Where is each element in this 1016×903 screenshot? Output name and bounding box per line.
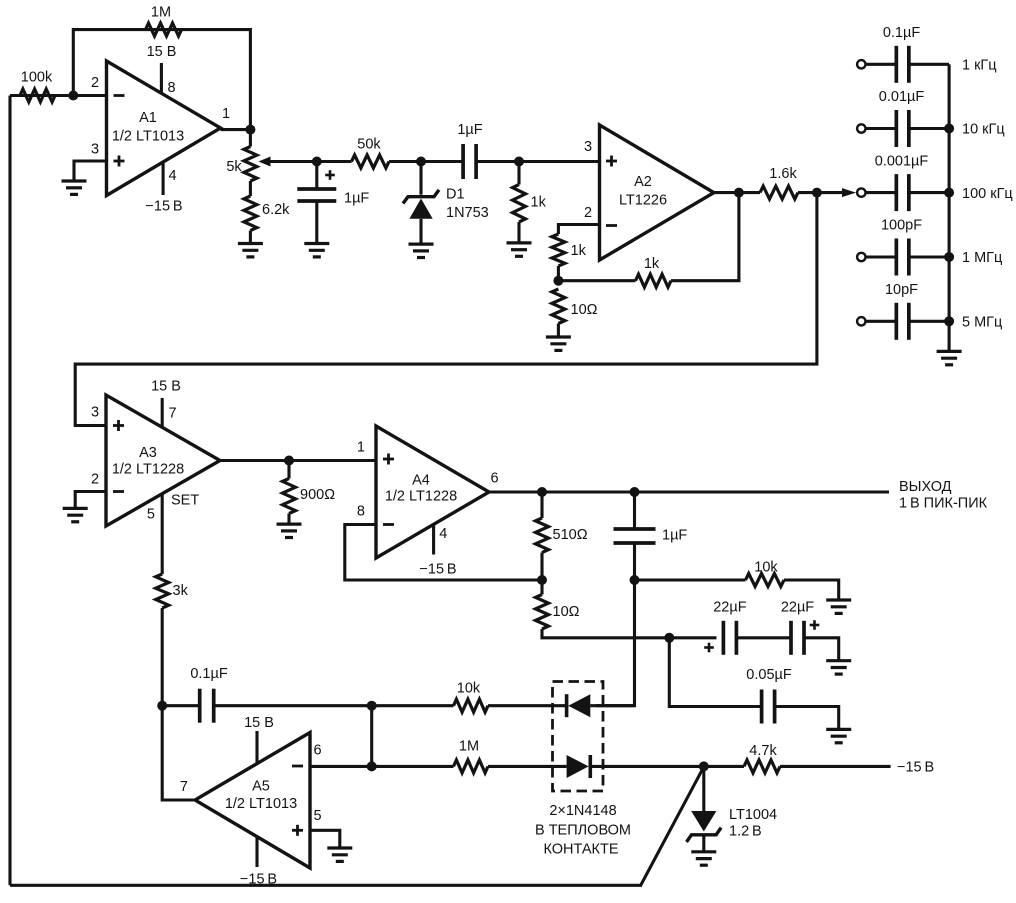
svg-text:15 В: 15 В <box>151 379 181 395</box>
label 510 ohm <box>553 527 588 543</box>
wire diagonal feedback to LT1004 node <box>640 767 704 887</box>
wire 10k row <box>635 578 746 581</box>
svg-text:SET: SET <box>171 493 199 509</box>
dashed thermal-contact box <box>553 682 604 792</box>
svg-text:1: 1 <box>222 106 230 122</box>
label 1/2 LT1013 (A1) <box>112 129 184 145</box>
label + (1uF pol) <box>325 170 335 180</box>
wire 1k feedback to output <box>671 193 739 281</box>
resistor 1k feedback (A2) <box>636 274 672 287</box>
svg-text:3: 3 <box>91 405 99 421</box>
svg-text:1M: 1M <box>459 739 479 755</box>
wire 0.1uF to 10k <box>213 704 453 707</box>
node bus junction row 3 <box>944 188 954 198</box>
resistor 1k shunt at A2 input <box>513 162 526 243</box>
svg-text:A3: A3 <box>139 445 157 461</box>
label 1uF (series) <box>457 122 482 138</box>
resistor 3k <box>156 574 169 608</box>
capacitor 1uF polarized plates <box>297 189 336 201</box>
A1 pin 4 stub <box>162 162 165 195</box>
svg-text:3k: 3k <box>173 583 189 599</box>
A4 pin 8 feedback wire <box>345 525 542 581</box>
label -15 V (A4) <box>419 562 456 578</box>
node 510/10 ohm junction <box>537 575 547 585</box>
label -15 V (rail) <box>897 760 934 776</box>
label 2x1N4148 <box>549 803 616 819</box>
svg-text:4: 4 <box>439 526 447 542</box>
svg-text:5: 5 <box>314 808 322 824</box>
node A2 output <box>734 188 744 198</box>
label 1k (feedback) <box>644 256 660 272</box>
wire 22uF node to 0.05uF <box>669 638 761 707</box>
label KONTAKTE <box>543 842 618 858</box>
resistor 1M (thermal) <box>454 760 489 773</box>
svg-text:10k: 10k <box>754 560 778 576</box>
A1 output wire pin 1 <box>221 128 251 131</box>
selector terminal circle row 1 <box>857 60 865 68</box>
resistor 1M feedback <box>146 23 182 36</box>
resistor 1k at A2 pin2 <box>552 234 565 266</box>
selector arrow into 100kHz tap <box>842 188 856 197</box>
wire A1 output down to 5k <box>249 130 252 147</box>
resistor 10 ohm (A2) <box>552 289 565 324</box>
svg-text:1.6k: 1.6k <box>769 166 797 182</box>
diode D3 1N4148 (points right) <box>567 755 591 778</box>
wire capacitor to bus row 3 <box>909 191 950 194</box>
wire 0.1uF left lead <box>162 704 200 707</box>
wire 10 ohm to ground <box>557 324 560 338</box>
svg-text:22µF: 22µF <box>781 600 814 616</box>
svg-text:−15 В: −15 В <box>240 872 277 888</box>
svg-text:50k: 50k <box>357 137 381 153</box>
ground below 0.05uF <box>826 729 851 742</box>
svg-text:4: 4 <box>169 168 177 184</box>
wire 6.2k to ground <box>249 231 252 244</box>
capacitor 0.05uF <box>762 690 775 724</box>
wire A2 output to 1.6k <box>714 191 760 194</box>
A2 minus marker pin2 <box>606 224 617 227</box>
label 0.1µF <box>883 25 921 41</box>
label D1 <box>446 187 465 203</box>
wire 1M to diode D3 <box>488 765 567 768</box>
svg-text:510Ω: 510Ω <box>553 527 588 543</box>
ground below 10 ohm <box>546 337 571 350</box>
node A4 output / 1uF <box>630 487 640 497</box>
A1 pin 8 stub <box>160 63 163 94</box>
wire 1k node to A2 pin 3 <box>519 160 600 163</box>
wire D1 to series 1uF <box>421 160 463 163</box>
svg-text:1/2 LT1013: 1/2 LT1013 <box>112 129 184 145</box>
svg-text:A1: A1 <box>139 110 157 126</box>
label 15 V (A3) <box>151 379 181 395</box>
zener diode D1 1N753 <box>403 162 439 245</box>
A5 pin 7 wire <box>162 706 195 800</box>
node A1 output <box>245 125 255 135</box>
wire feedback row A2 <box>558 279 635 282</box>
svg-text:6: 6 <box>491 471 499 487</box>
label 10k (to ground) <box>754 560 778 576</box>
svg-text:10Ω: 10Ω <box>553 604 580 620</box>
svg-text:A4: A4 <box>412 473 430 489</box>
wire input row to A1 pin 2 <box>10 94 107 97</box>
resistor 6.2k <box>244 196 257 231</box>
svg-text:1 кГц: 1 кГц <box>962 58 997 74</box>
label + (22uF right) <box>810 620 820 630</box>
A1 pin 3 ground wire <box>74 161 107 181</box>
A5 minus marker pin6 <box>292 765 303 768</box>
op-amp A3 1/2 LT1228 <box>106 395 220 526</box>
label LT1004 <box>729 807 777 823</box>
label 10 ohm (A4) <box>553 604 580 620</box>
svg-text:2: 2 <box>91 472 99 488</box>
pin label 3 (A2) <box>584 139 592 155</box>
zener diode LT1004 <box>687 766 722 851</box>
svg-text:6: 6 <box>314 743 322 759</box>
wire 1uF to 10k node <box>633 543 636 580</box>
svg-text:4.7k: 4.7k <box>749 743 777 759</box>
node A1 inverting input junction <box>68 91 78 101</box>
capacitor 1uF shunt stem <box>633 492 636 529</box>
pin label 3 (A3) <box>91 405 99 421</box>
label 6.2k <box>262 202 290 218</box>
svg-text:ВЫХОД: ВЫХОД <box>899 479 952 495</box>
pin label 6 (A5) <box>314 743 322 759</box>
capacitor 0.1µF <box>896 46 909 83</box>
pin label 2 (A1) <box>91 75 99 91</box>
op-amp A2 LT1226 <box>600 125 714 260</box>
svg-text:100pF: 100pF <box>881 218 922 234</box>
label 10 ohm (A2) <box>571 302 598 318</box>
A4 minus marker pin8 <box>383 523 394 526</box>
label A3 <box>139 445 157 461</box>
resistor 510 ohm <box>536 492 549 580</box>
ground at A1 pin 3 <box>62 181 87 194</box>
resistor 50k <box>352 155 390 168</box>
A4 output wire to VYHOD <box>489 490 889 493</box>
svg-text:A5: A5 <box>252 779 270 795</box>
svg-text:1µF: 1µF <box>457 122 482 138</box>
wire 4.7k to -15V label <box>780 765 891 768</box>
capacitor 0.001µF <box>896 174 909 211</box>
label 1M (thermal) <box>459 739 479 755</box>
label 0.05uF <box>746 667 792 683</box>
svg-text:100 кГц: 100 кГц <box>962 186 1013 202</box>
wire A5 pin6 row <box>310 765 454 768</box>
label 5k <box>226 159 242 175</box>
wire 10k to ground <box>784 580 839 600</box>
node bus junction row 2 <box>944 124 954 134</box>
node 1uF/10k junction <box>630 575 640 585</box>
pin label 5 (A5) <box>314 808 322 824</box>
ground below 22uF <box>826 661 851 674</box>
node wiper / 1uF junction <box>312 157 322 167</box>
label 1.2 V <box>729 824 762 840</box>
wire left feedback rail <box>8 96 11 886</box>
selector terminal circle row 5 <box>857 317 865 325</box>
label A2 <box>634 174 652 190</box>
wire terminal to capacitor row 5 <box>866 320 896 323</box>
ground below LT1004 <box>691 852 716 865</box>
wire capacitor to bus row 1 <box>909 63 950 66</box>
svg-text:1.2 В: 1.2 В <box>729 824 762 840</box>
label 10k (thermal) <box>457 681 481 697</box>
svg-text:КОНТАКТЕ: КОНТАКТЕ <box>543 842 618 858</box>
resistor 100k <box>20 89 55 102</box>
A1 minus marker pin2 <box>114 94 125 97</box>
svg-text:0.01µF: 0.01µF <box>879 89 925 105</box>
pin label 5 (A3) <box>147 507 155 523</box>
wire 22uF row <box>669 636 716 639</box>
capacitor 0.01µF <box>896 110 909 147</box>
wire capacitor to bus row 5 <box>909 320 950 323</box>
capacitor 1uF shunt plates <box>614 529 656 543</box>
wire capacitor to bus row 4 <box>909 255 950 258</box>
potentiometer 5k <box>244 147 257 182</box>
node 1k/10ohm junction <box>553 276 563 286</box>
svg-text:2: 2 <box>584 205 592 221</box>
svg-text:3: 3 <box>584 139 592 155</box>
svg-text:6.2k: 6.2k <box>262 202 290 218</box>
label 1 кГц <box>962 58 997 74</box>
label 1 МГц <box>962 250 1002 266</box>
resistor 900 ohm <box>283 461 296 525</box>
op-amp A5 1/2 LT1013 (points left) <box>195 733 310 869</box>
label 1uF (pol) <box>344 191 369 207</box>
wire 1.6k node down to A3 feed <box>75 193 817 426</box>
A2 pin 2 wire <box>558 225 599 235</box>
capacitor 22uF left <box>723 621 736 655</box>
label 1.6k <box>769 166 797 182</box>
node 22uF junction <box>664 633 674 643</box>
pin label 3 (A1) <box>91 142 99 158</box>
node -15V / LT1004 junction <box>699 761 709 771</box>
svg-text:В ТЕПЛОВОМ: В ТЕПЛОВОМ <box>535 823 631 839</box>
svg-text:D1: D1 <box>446 187 465 203</box>
label 1k (shunt) <box>531 195 547 211</box>
label SET <box>171 493 199 509</box>
ground below bank bus <box>937 351 962 364</box>
pin label 1 (A4) <box>357 440 365 456</box>
svg-text:1k: 1k <box>571 243 587 259</box>
A3 minus marker pin2 <box>113 490 124 493</box>
svg-text:100k: 100k <box>21 70 53 86</box>
label 1k (A2 pin2) <box>571 243 587 259</box>
svg-text:0.1µF: 0.1µF <box>883 25 921 41</box>
wire 1M feedback loop <box>73 30 250 130</box>
pin label 8 (A4) <box>357 504 365 520</box>
label 1/2 LT1228 (A3) <box>112 462 184 478</box>
svg-text:2×1N4148: 2×1N4148 <box>549 803 616 819</box>
label 3k <box>173 583 189 599</box>
node 1.6k output junction <box>812 188 822 198</box>
svg-text:2: 2 <box>91 75 99 91</box>
svg-text:10k: 10k <box>457 681 481 697</box>
wire capacitor to bus row 2 <box>909 127 950 130</box>
wire capacitor bank bus <box>948 64 951 351</box>
A5 pin 5 ground wire <box>310 830 340 848</box>
wire 0.05uF to ground <box>775 707 839 730</box>
svg-text:1 В ПИК-ПИК: 1 В ПИК-ПИК <box>899 496 988 512</box>
label 1N753 <box>446 205 489 221</box>
wire 50k to D1 node <box>389 160 421 163</box>
A5 plus marker pin5 <box>292 825 303 836</box>
capacitor 1uF series <box>463 144 476 179</box>
A4 pin 4 stub <box>432 524 435 554</box>
svg-text:1k: 1k <box>644 256 660 272</box>
node bus junction row 5 <box>944 316 954 326</box>
pin label 1 (A1) <box>222 106 230 122</box>
node bus junction row 4 <box>944 252 954 262</box>
wire 1.6k to bank arrow <box>798 191 817 194</box>
capacitor 0.1uF <box>200 689 214 723</box>
pin label 8 (A1) <box>168 80 176 96</box>
svg-text:7: 7 <box>169 406 177 422</box>
wire 22uF to ground <box>804 638 839 661</box>
svg-text:1/2 LT1228: 1/2 LT1228 <box>112 462 184 478</box>
node 1k junction <box>514 157 524 167</box>
ground below 900 ohm <box>277 524 302 537</box>
resistor 10 ohm (A4) <box>536 580 549 629</box>
ground below 10k <box>826 600 851 613</box>
svg-text:10pF: 10pF <box>885 282 918 298</box>
A3 plus marker pin3 <box>113 420 124 431</box>
A5 bottom supply stub <box>255 837 258 867</box>
wire terminal to capacitor row 3 <box>866 191 896 194</box>
label 0.001µF <box>875 153 929 169</box>
svg-text:15 В: 15 В <box>147 44 177 60</box>
A3 pin 7 stub <box>161 398 164 427</box>
A1 plus marker pin3 <box>114 156 125 167</box>
label + (22uF left) <box>704 643 714 653</box>
svg-text:1: 1 <box>357 440 365 456</box>
svg-text:1M: 1M <box>151 5 171 21</box>
op-amp A4 1/2 LT1228 <box>376 426 489 558</box>
svg-text:A2: A2 <box>634 174 652 190</box>
wire 10 ohm to 22uF row <box>542 629 669 638</box>
wire wiper row to 50k <box>317 160 352 163</box>
wire terminal to capacitor row 2 <box>866 127 896 130</box>
svg-text:1/2 LT1013: 1/2 LT1013 <box>225 796 297 812</box>
selector terminal circle row 4 <box>857 253 865 261</box>
label 1M <box>151 5 171 21</box>
capacitor 100pF <box>896 239 909 276</box>
resistor 1.6k <box>760 186 798 199</box>
svg-text:−15 В: −15 В <box>145 199 182 215</box>
ground at A3 pin 2 <box>63 508 88 521</box>
node 3k / 0.1uF junction <box>157 701 167 711</box>
ground below 1k shunt <box>507 243 532 256</box>
svg-text:10 кГц: 10 кГц <box>962 122 1005 138</box>
svg-text:8: 8 <box>357 504 365 520</box>
pin label 4 (A4) <box>439 526 447 542</box>
wire 1uF to 1k node <box>476 160 519 163</box>
svg-text:1k: 1k <box>531 195 547 211</box>
label A4 <box>412 473 430 489</box>
svg-text:22µF: 22µF <box>713 600 746 616</box>
A5 top supply stub <box>255 731 258 763</box>
label 100k <box>21 70 53 86</box>
A3 pin 5 SET stub <box>161 494 164 574</box>
svg-text:−15 В: −15 В <box>419 562 456 578</box>
label LT1226 <box>619 193 667 209</box>
node A3 output / 900 ohm <box>284 456 294 466</box>
resistor 4.7k <box>744 760 780 773</box>
wire node to 4.7k <box>704 765 744 768</box>
capacitor 22uF right <box>791 621 804 655</box>
resistor 10k (to ground) <box>746 574 785 587</box>
node 0.1uF/pin6 junction bottom <box>367 761 377 771</box>
A4 plus marker pin1 <box>383 454 394 465</box>
selector terminal circle row 2 <box>857 124 865 132</box>
wire diode D3 to -15V node <box>590 765 704 768</box>
svg-text:−15 В: −15 В <box>897 760 934 776</box>
ground below D1 <box>409 244 434 257</box>
label 0.01µF <box>879 89 925 105</box>
svg-text:5: 5 <box>147 507 155 523</box>
svg-text:7: 7 <box>180 779 188 795</box>
label -15 V (A1) <box>145 199 182 215</box>
wire 1uF pol to ground <box>315 201 318 244</box>
A2 plus marker pin3 <box>606 156 617 167</box>
svg-text:1µF: 1µF <box>344 191 369 207</box>
pin label 4 (A1) <box>169 168 177 184</box>
label 1 V PIK-PIK <box>899 496 988 512</box>
svg-text:10Ω: 10Ω <box>571 302 598 318</box>
label 15 V (A1) <box>147 44 177 60</box>
pin label 7 (A3) <box>169 406 177 422</box>
label 10 кГц <box>962 122 1005 138</box>
wire bottom feedback line <box>10 884 640 887</box>
wire 1k to 10 ohm node <box>557 266 560 281</box>
label 1uF (shunt) <box>662 528 687 544</box>
svg-text:8: 8 <box>168 80 176 96</box>
node 0.1uF/pin6 junction top <box>367 701 377 711</box>
svg-text:0.1µF: 0.1µF <box>190 666 228 682</box>
wire to selector arrow <box>817 191 845 194</box>
svg-text:5k: 5k <box>226 159 242 175</box>
wire terminal to capacitor row 4 <box>866 255 896 258</box>
label 22uF (right) <box>781 600 814 616</box>
selector terminal circle row 3 <box>857 188 865 196</box>
wire 1uF node down to diode row <box>596 580 635 706</box>
A3 pin 2 ground wire <box>75 492 106 509</box>
pin label 7 (A5) <box>180 779 188 795</box>
label A1 <box>139 110 157 126</box>
resistor 10k (thermal) <box>454 699 489 712</box>
pin label 2 (A3) <box>91 472 99 488</box>
label 100pF <box>881 218 922 234</box>
svg-text:3: 3 <box>91 142 99 158</box>
capacitor 1uF polarized stem <box>315 162 318 189</box>
label 900 ohm <box>300 487 335 503</box>
label 10pF <box>885 282 918 298</box>
svg-text:15 В: 15 В <box>244 715 274 731</box>
svg-text:LT1004: LT1004 <box>729 807 777 823</box>
svg-text:5 МГц: 5 МГц <box>962 315 1002 331</box>
pot wiper arrow <box>259 157 317 167</box>
pin label 6 (A4) <box>491 471 499 487</box>
label 5 МГц <box>962 315 1002 331</box>
capacitor 10pF <box>896 303 909 340</box>
svg-text:0.05µF: 0.05µF <box>746 667 792 683</box>
label VYHOD <box>899 479 952 495</box>
ground at A5 pin 5 <box>327 848 352 861</box>
ground below 6.2k <box>238 244 263 257</box>
label -15 V (A5) <box>240 872 277 888</box>
svg-text:1N753: 1N753 <box>446 205 489 221</box>
A3 output wire <box>220 459 376 462</box>
wire 3k to 0.1uF node <box>161 608 164 706</box>
